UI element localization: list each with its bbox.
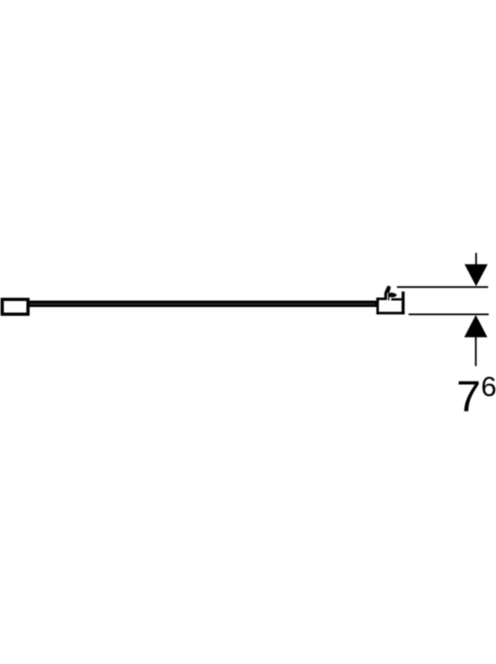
right clamp profile: bottom wall bbox=[376, 312, 404, 315]
dimension arrow down bbox=[465, 264, 488, 286]
dimension extension line top bbox=[397, 286, 488, 288]
right clamp profile: lip stem bbox=[388, 293, 389, 300]
right clamp profile: right wall bbox=[402, 292, 405, 315]
right clamp profile: left wall bbox=[376, 298, 379, 315]
dimension leader line above bbox=[475, 253, 477, 266]
right clamp profile: seal lip (teardrop) bbox=[388, 293, 397, 298]
right clamp profile: retaining spike bbox=[384, 286, 390, 300]
right clamp profile: top-left edge bbox=[376, 298, 385, 301]
svg-text:6: 6 bbox=[481, 371, 496, 402]
svg-text:7: 7 bbox=[456, 373, 480, 422]
dimension extension line bottom bbox=[409, 314, 489, 316]
right clamp profile: inner top edge bbox=[391, 298, 401, 300]
dimension arrow up bbox=[464, 315, 487, 337]
dimension leader line below bbox=[475, 337, 477, 367]
left end cap (rectangle) bbox=[2, 299, 28, 314]
stabilization bar (double line rod) bbox=[29, 301, 378, 307]
